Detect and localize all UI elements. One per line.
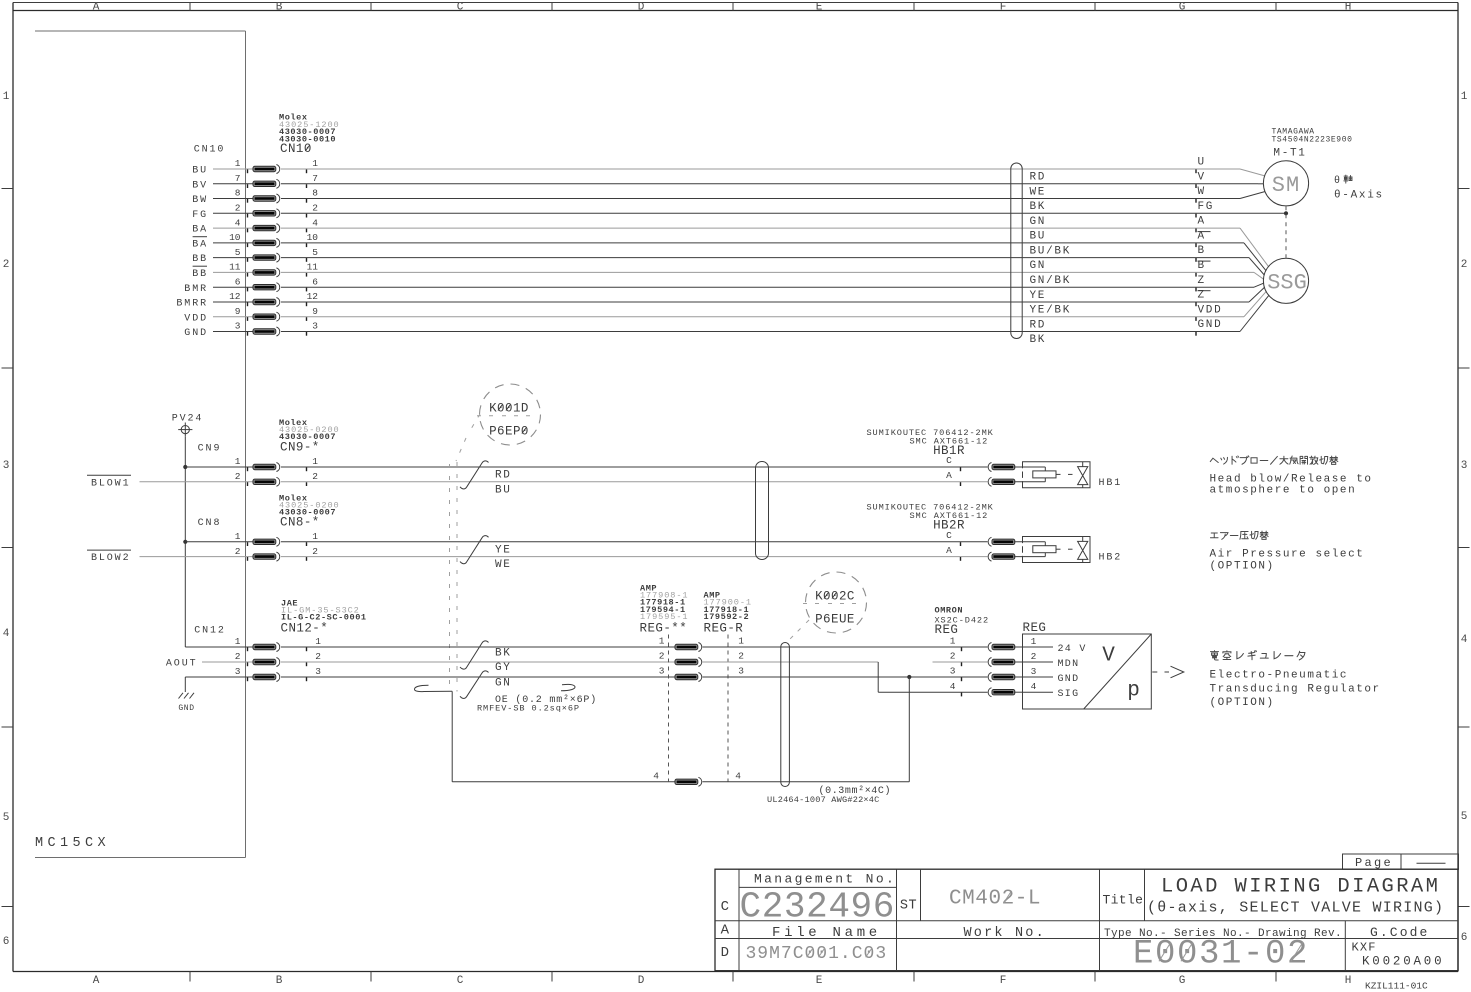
CN12 pin 1 wire (PV24) [185,636,675,651]
svg-text:A: A [93,1,100,13]
svg-text:BB: BB [192,254,208,265]
svg-text:3: 3 [235,321,241,332]
REG pin 4 wire (shield return) [653,770,909,786]
svg-text:H: H [1345,975,1352,987]
svg-text:3: 3 [3,460,10,472]
svg-text:M-T1: M-T1 [1273,148,1306,160]
svg-text:3: 3 [738,666,744,677]
svg-text:BU: BU [495,484,512,496]
wire shield drop to row 4 [452,691,675,782]
svg-text:BLOW1: BLOW1 [91,478,131,489]
svg-text:4: 4 [653,770,659,781]
svg-text:RMFEV-SB 0.2sq×6P: RMFEV-SB 0.2sq×6P [477,704,580,714]
CN9 pin 1 wire (PV24) [185,456,987,471]
balloon K002C / P6EUE [787,572,867,642]
svg-text:1: 1 [738,636,744,647]
svg-text:A: A [946,470,952,481]
svg-text:F: F [1000,975,1007,987]
svg-text:Head blow/Release to: Head blow/Release to [1210,473,1373,485]
svg-text:E: E [816,975,823,987]
svg-text:10: 10 [307,232,319,243]
svg-text:4: 4 [1031,681,1037,692]
svg-text:CN10: CN10 [194,145,226,156]
CN10 pin 12 wire BMRR [176,288,1264,317]
svg-text:2: 2 [235,546,241,557]
svg-text:Transducing Regulator: Transducing Regulator [1210,683,1381,695]
svg-text:GN: GN [495,678,512,690]
svg-text:1: 1 [1461,91,1468,103]
svg-text:W: W [1198,186,1206,198]
signal BLOW1 [87,475,131,489]
svg-text:A: A [1198,216,1206,228]
svg-text:39M7C001.C03: 39M7C001.C03 [746,944,888,964]
connector CN8 (Molex) header text [198,494,340,530]
svg-text:9: 9 [235,306,241,317]
svg-text:179595-1: 179595-1 [640,612,688,622]
power net PV24 [172,414,204,437]
REG pin 2 wire (AOUT->SIG) [659,651,988,693]
svg-text:Z: Z [1198,275,1206,287]
cable mark CN8 pair [460,536,512,572]
svg-text:(OPTION): (OPTION) [1210,697,1275,709]
svg-text:CN12-*: CN12-* [281,622,329,636]
svg-text:6: 6 [3,936,10,948]
svg-text:A: A [93,975,100,987]
svg-text:AOUT: AOUT [166,658,198,669]
svg-text:9: 9 [312,306,318,317]
svg-text:7: 7 [312,173,318,184]
electro-pneumatic regulator box [1023,634,1152,709]
solenoid valve HB1 [1014,462,1122,489]
svg-text:8: 8 [312,188,318,199]
svg-text:2: 2 [659,651,665,662]
svg-text:GND: GND [1198,319,1223,331]
svg-text:GND: GND [178,704,194,713]
CN10 pin 5 wire BB [192,245,1264,275]
HB1R pin A wire [946,470,1015,486]
svg-text:2: 2 [1031,651,1037,662]
svg-text:C: C [457,1,464,13]
CN9 pin 2 wire (BLOW1) [140,471,988,486]
CN8 pin 1 wire (PV24) [185,531,987,546]
cable bundle oval (motor cable) [1011,163,1022,339]
motor part no TAMAGAWA TS4504N2223E900 M-T1 [1272,128,1353,160]
svg-text:HB1: HB1 [1099,478,1123,489]
svg-text:VDD: VDD [1198,304,1223,316]
svg-text:C: C [946,530,952,541]
svg-text:BK: BK [495,647,512,659]
svg-text:E: E [816,1,823,13]
svg-text:GN: GN [1030,216,1047,228]
svg-text:REG-**: REG-** [640,622,688,636]
svg-text:Electro-Pneumatic: Electro-Pneumatic [1210,670,1349,682]
svg-text:2: 2 [950,651,956,662]
svg-text:G.Code: G.Code [1370,925,1429,940]
svg-text:OMRON: OMRON [935,605,964,615]
svg-text:RD: RD [495,470,512,482]
svg-text:BU/BK: BU/BK [1030,246,1072,258]
balloon K001D / P6EP0 [456,384,541,461]
svg-text:KZIL111-01C: KZIL111-01C [1365,981,1428,992]
REG pin 1 (24 V) contact [950,636,1087,655]
svg-text:BA: BA [192,240,208,251]
svg-text:REG-R: REG-R [704,622,744,636]
svg-text:BMRR: BMRR [176,299,208,310]
svg-text:5: 5 [235,247,241,258]
svg-text:SM: SM [1272,173,1300,198]
svg-text:6: 6 [235,276,241,287]
svg-text:1: 1 [950,636,956,647]
connector CN9 (Molex) header text [198,418,340,455]
svg-text:24 V: 24 V [1058,644,1087,655]
connector CN12 (JAE) header text [194,599,366,637]
svg-text:BMR: BMR [184,284,208,295]
svg-text:GN/BK: GN/BK [1030,275,1072,287]
CN10 pin 3 wire GND [184,296,1268,346]
svg-text:YE: YE [495,544,512,556]
svg-text:3: 3 [1461,460,1468,472]
REG pin 3 (GND) contact [950,666,1080,685]
svg-text:FG: FG [192,210,208,221]
CN10 pin 9 wire VDD [184,292,1266,332]
junction GND/shield [907,675,911,782]
svg-text:179592-2: 179592-2 [704,612,750,622]
svg-text:CN8: CN8 [198,518,222,529]
svg-text:5: 5 [3,812,10,824]
svg-text:LOAD WIRING DIAGRAM: LOAD WIRING DIAGRAM [1161,875,1440,898]
svg-text:WE: WE [1030,186,1047,198]
theta axis label [1334,175,1384,202]
svg-text:GND: GND [184,328,208,339]
svg-text:1: 1 [312,531,318,542]
svg-text:A: A [721,923,730,939]
CN10 pin 2 wire FG [192,201,1286,228]
svg-text:C232496: C232496 [740,887,895,928]
svg-text:3: 3 [312,321,318,332]
svg-text:θ-Axis: θ-Axis [1334,190,1384,202]
svg-text:YE/BK: YE/BK [1030,305,1072,317]
svg-text:GY: GY [495,662,512,674]
svg-text:GN: GN [1030,260,1047,272]
svg-text:K001D: K001D [489,402,529,416]
svg-text:Title: Title [1103,892,1144,907]
svg-text:G: G [1179,975,1186,987]
REG pin 1 wire (24V) [659,636,988,652]
svg-text:Management No.: Management No. [754,871,896,886]
svg-text:BK: BK [1030,334,1047,346]
svg-text:BK: BK [1030,201,1047,213]
svg-text:HB2: HB2 [1099,553,1123,564]
svg-text:C: C [457,975,464,987]
connector REG-R (AMP) header text [704,591,752,636]
svg-text:1: 1 [315,636,321,647]
svg-text:CN9: CN9 [198,443,222,454]
svg-text:3: 3 [659,666,665,677]
svg-text:Work No.: Work No. [964,926,1046,941]
svg-text:F: F [1000,1,1007,13]
CN12 pin 2 wire (AOUT) [202,651,675,666]
svg-text:D: D [638,975,645,987]
svg-text:E0031-02: E0031-02 [1133,935,1309,973]
ground symbol (CN12 pin3) [178,677,194,713]
svg-text:CN12: CN12 [194,625,226,636]
svg-text:12: 12 [307,291,319,302]
svg-text:B: B [276,975,283,987]
svg-text:SIG: SIG [1058,689,1080,700]
svg-text:SSG: SSG [1267,271,1307,296]
svg-text:12: 12 [229,291,241,302]
CN10 pin 8 wire BW [192,186,1265,213]
CN8 pin 2 wire (BLOW2) [140,546,988,561]
annotation: Air Pressure select (OPTION) [1210,548,1365,572]
annotation: air pressure select (Japanese) [1210,531,1268,539]
svg-text:atmosphere to open: atmosphere to open [1210,485,1357,497]
svg-text:CM402-L: CM402-L [949,888,1041,911]
svg-text:5: 5 [312,247,318,258]
svg-text:D: D [638,1,645,13]
svg-text:2: 2 [1461,259,1468,271]
title block [715,869,1458,973]
svg-text:MDN: MDN [1058,659,1080,670]
CN10 pin 7 wire BV [192,171,1263,198]
CN12 pin 3 wire (GND) [185,666,675,681]
svg-text:θ: θ [1334,175,1342,187]
svg-text:FG: FG [1198,201,1215,213]
svg-text:V: V [1198,171,1206,183]
svg-text:1: 1 [235,456,241,467]
svg-text:1: 1 [235,531,241,542]
cable bundle oval (REG cable) [781,643,790,787]
svg-text:P6EUE: P6EUE [815,613,855,627]
REG pin 2 (MDN) contact [950,651,1080,670]
svg-text:PV24: PV24 [172,414,204,425]
svg-text:RD: RD [1030,319,1047,331]
CN10 pin 11 wire BB [192,260,1263,287]
REG-** / REG-R mating dashed lines [669,635,729,782]
junction PV24/CN9 pin1 [183,465,187,469]
cable mark CN9 pair [460,461,512,497]
svg-text:1: 1 [312,158,318,169]
svg-text:1: 1 [235,158,241,169]
svg-text:6: 6 [1461,932,1468,944]
wire PV24 vertical feed [184,437,186,647]
svg-text:11: 11 [229,262,241,273]
svg-text:B: B [276,1,283,13]
svg-text:C: C [946,455,952,466]
CN10 pin 1 wire BU [192,157,1265,184]
svg-text:WE: WE [495,559,512,571]
svg-text:KXF: KXF [1352,940,1377,954]
svg-text:Page: Page [1355,856,1393,870]
pneumatic output arrow [1152,666,1184,678]
svg-text:7: 7 [235,173,241,184]
svg-text:GND: GND [1058,674,1080,685]
svg-text:B: B [1198,245,1206,257]
svg-text:p: p [1127,680,1140,703]
svg-text:6: 6 [312,276,318,287]
svg-text:K002C: K002C [815,590,855,604]
signal BLOW2 [87,550,131,564]
svg-text:2: 2 [235,203,241,214]
svg-text:A: A [946,545,952,556]
svg-text:3: 3 [235,666,241,677]
svg-text:4: 4 [3,628,10,640]
svg-text:BB: BB [192,269,208,280]
cable spec (0.3mm2x4C) UL2464-1007 [767,785,891,805]
CN10 pin 6 wire BMR [184,275,1263,302]
svg-text:RD: RD [1030,172,1047,184]
svg-text:Air Pressure select: Air Pressure select [1210,548,1365,560]
svg-text:MC15CX: MC15CX [35,836,110,851]
svg-text:1: 1 [312,456,318,467]
svg-text:B: B [1198,260,1206,272]
motor SM [1263,161,1308,206]
svg-text:10: 10 [229,232,241,243]
svg-text:ST: ST [900,899,917,914]
svg-text:Z: Z [1198,290,1206,302]
svg-text:D: D [721,945,730,961]
svg-text:3: 3 [1031,666,1037,677]
solenoid valve HB2 [1014,537,1122,564]
svg-text:A: A [1198,231,1206,243]
REG pin 3 wire (GND) [659,666,988,682]
cable boundary dashed lines (K001D cable) [450,462,458,692]
junction FG / motor frame [1284,206,1288,258]
svg-text:2: 2 [315,651,321,662]
cable mark CN12 pin 3 / shield [460,671,512,699]
annotation: Electro-Pneumatic Transducing Regulator (OPTION) [1210,670,1381,710]
HB1R pin C wire [946,455,1015,471]
svg-text:BA: BA [192,225,208,236]
svg-text:1: 1 [3,91,10,103]
svg-text:1: 1 [659,636,665,647]
svg-text:2: 2 [738,651,744,662]
svg-text:BU: BU [1030,231,1047,243]
svg-text:REG: REG [1023,621,1047,635]
REG pin 4 (SIG) contact [950,681,1080,700]
svg-text:VDD: VDD [184,313,208,324]
svg-text:(θ-axis, SELECT VALVE WIRING): (θ-axis, SELECT VALVE WIRING) [1147,900,1444,917]
svg-text:1: 1 [235,636,241,647]
svg-text:4: 4 [235,217,241,228]
svg-text:H: H [1345,1,1352,13]
svg-text:1: 1 [1031,636,1037,647]
svg-text:2: 2 [235,651,241,662]
cable bundle oval (HB valves cable) [756,462,769,560]
svg-text:TS4504N2223E900: TS4504N2223E900 [1272,136,1353,145]
svg-text:3: 3 [315,666,321,677]
cable mark CN12 pins 1-2 [460,641,512,674]
svg-text:2: 2 [312,471,318,482]
svg-text:BU: BU [192,166,208,177]
board MC15CX outline [35,31,246,858]
connector HB1R (SUMIKOUTEC 706412-2MK / SMC AXT661-12) [867,428,994,458]
svg-text:UL2464-1007 AWG#22×4C: UL2464-1007 AWG#22×4C [767,795,880,805]
svg-text:3: 3 [950,666,956,677]
svg-text:2: 2 [3,259,10,271]
svg-text:CN8-*: CN8-* [280,515,320,529]
annotation: electro-pneumatic regulator (Japanese) [1211,651,1305,661]
svg-text:4: 4 [950,681,956,692]
annotation: Head blow/Release to atmosphere to open [1210,473,1373,496]
svg-text:BV: BV [192,180,208,191]
svg-text:V: V [1102,645,1115,668]
svg-text:File Name: File Name [772,925,881,941]
CN10 pin 4 wire BA [192,216,1268,267]
svg-text:G: G [1179,1,1186,13]
svg-text:K0020A00: K0020A00 [1362,954,1444,968]
cable OE shield [415,684,598,713]
resolver SSG [1263,258,1308,303]
svg-text:5: 5 [1461,811,1468,823]
annotation: head blow (Japanese) [1210,456,1338,465]
HB2R pin C wire [946,530,1015,546]
connector REG (OMRON XS2C-D422) header text [935,605,990,637]
svg-text:U: U [1198,157,1206,169]
svg-text:2: 2 [235,471,241,482]
svg-text:CN9-*: CN9-* [280,441,320,455]
svg-text:4: 4 [1461,634,1468,646]
connector HB2R (SUMIKOUTEC 706412-2MK / SMC AXT661-12) [867,503,994,533]
svg-text:8: 8 [235,188,241,199]
svg-text:C: C [721,899,730,915]
svg-text:BLOW2: BLOW2 [91,553,131,564]
CN10 pin 10 wire BA [192,231,1266,271]
HB2R pin A wire [946,545,1015,561]
svg-text:11: 11 [307,262,319,273]
connector REG-** (AMP) header text [640,584,689,636]
svg-text:4: 4 [312,217,318,228]
svg-text:BW: BW [192,195,208,206]
junction PV24/CN8 pin1 [183,540,187,544]
svg-text:(OPTION): (OPTION) [1210,560,1275,572]
page box [1343,854,1459,870]
connector CN10 (Molex) header text [194,113,340,157]
svg-text:2: 2 [312,203,318,214]
svg-text:2: 2 [312,546,318,557]
svg-text:YE: YE [1030,290,1047,302]
svg-text:4: 4 [735,770,741,781]
